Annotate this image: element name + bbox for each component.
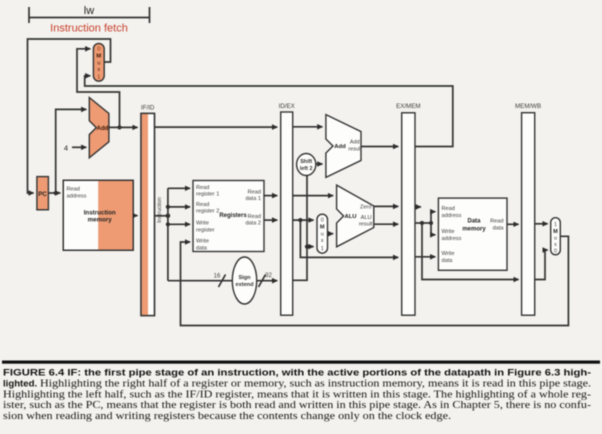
oval Sign extend [232, 257, 256, 304]
svg-text:address: address [442, 236, 462, 242]
junction instruction [166, 214, 171, 219]
svg-text:lighted.: lighted. [3, 378, 37, 389]
wire read data 2 down to EX/MEM (write data) [300, 220, 398, 257]
svg-text:Read: Read [196, 202, 209, 208]
lw bracket [29, 7, 150, 23]
junction ALU result bypass [420, 221, 424, 225]
svg-text:u: u [321, 231, 324, 237]
pipeline register ID/EX [279, 103, 295, 315]
svg-text:M: M [96, 54, 101, 60]
svg-text:Write: Write [196, 221, 209, 227]
registers Registers [193, 181, 264, 252]
svg-text:MEM/WB: MEM/WB [515, 103, 541, 110]
svg-text:Zero: Zero [360, 205, 372, 211]
wire ALU result after EX/MEM [415, 222, 431, 224]
svg-text:M: M [320, 225, 325, 231]
svg-text:Shift: Shift [300, 159, 312, 165]
wire to Write register [168, 223, 190, 225]
wire PC up to Add [56, 109, 87, 193]
junction read data 2 [298, 218, 302, 222]
svg-text:0: 0 [321, 218, 324, 224]
svg-text:ID/EX: ID/EX [279, 103, 295, 110]
wire branch Add result to EX/MEM [361, 146, 398, 148]
svg-text:result: result [359, 221, 373, 227]
memory Data memory [438, 198, 507, 270]
svg-text:Write: Write [196, 239, 209, 245]
wire Zero to EX/MEM [374, 205, 398, 207]
svg-text:u: u [97, 60, 100, 66]
svg-text:address: address [442, 213, 462, 219]
svg-text:ALU: ALU [361, 215, 372, 221]
slash 16 [219, 275, 226, 288]
svg-text:Read: Read [442, 206, 455, 212]
wire bypass to WB mux input 0 [535, 250, 548, 280]
mux M3 (WB mux) [551, 218, 561, 255]
svg-text:Instruction fetch: Instruction fetch [50, 23, 128, 35]
svg-text:register 2: register 2 [196, 209, 219, 215]
wire Zero stub [415, 206, 421, 208]
wire sign ext after ID/EX up to shift left 2 [293, 176, 307, 281]
wire Add out to IF/ID [109, 126, 138, 128]
wire PC+4 feedback to mux input 0 [77, 49, 120, 128]
caption rule [2, 361, 600, 364]
svg-text:left 2: left 2 [300, 166, 313, 172]
svg-text:Add: Add [350, 140, 360, 146]
mux M2 (ALUSrc) [317, 214, 328, 253]
svg-text:Data: Data [467, 219, 481, 225]
wire sign extend to ID/EX [257, 280, 278, 282]
wire read data 1 to ID/EX [264, 195, 277, 197]
svg-text:Registers: Registers [219, 213, 247, 219]
wire read data 2 ID/EX to mux [293, 219, 314, 221]
wire instruction from IF/ID [155, 215, 168, 217]
wire branch target long line to mux input 1 [85, 76, 453, 147]
svg-text:address: address [67, 194, 87, 200]
svg-text:ALU: ALU [344, 214, 356, 220]
svg-text:Add: Add [334, 144, 346, 150]
wire write data loop from WB [181, 236, 569, 325]
wire instruction vertical [167, 188, 169, 280]
wire read data 1 ID/EX to ALU [293, 195, 333, 197]
memory Instruction memory [63, 180, 133, 250]
wire to Read address [431, 212, 435, 223]
wire write data into memory [415, 256, 435, 258]
svg-text:extend: extend [235, 282, 254, 288]
svg-text:data: data [493, 225, 505, 231]
register PC [37, 177, 49, 210]
wire to Read register 2 [168, 206, 190, 208]
junction write register tap [166, 222, 170, 226]
slash 32 [259, 275, 266, 288]
svg-text:Sign: Sign [238, 275, 251, 281]
svg-text:M: M [553, 229, 558, 235]
junction PC out [54, 191, 58, 195]
pipeline register IF/ID [141, 105, 155, 316]
svg-text:data 2: data 2 [245, 221, 261, 227]
svg-text:FIGURE 6.4 IF: the first pipe: FIGURE 6.4 IF: the first pipe stage of a… [3, 368, 591, 379]
svg-text:Read: Read [248, 214, 261, 220]
pipeline register MEM/WB [515, 103, 541, 315]
svg-text:memory: memory [462, 227, 486, 233]
oval Shift left 2 [297, 154, 316, 176]
svg-text:register 1: register 1 [196, 192, 219, 198]
junction memory address bracket [429, 221, 433, 225]
adder Add (PC+4) [89, 98, 109, 158]
wire PC+4 ID/EX to branch Add [293, 126, 323, 128]
pipeline register EX/MEM [396, 103, 420, 315]
svg-text:lw: lw [84, 5, 94, 17]
svg-text:Read: Read [67, 187, 80, 193]
svg-text:16: 16 [214, 274, 221, 280]
svg-text:PC: PC [38, 191, 47, 198]
wire ALU result to EX/MEM [374, 223, 398, 225]
svg-text:x: x [554, 242, 557, 248]
wire read data to WB mux input 1 [535, 223, 548, 225]
svg-text:32: 32 [265, 273, 272, 279]
svg-text:Add: Add [97, 126, 109, 132]
svg-text:memory: memory [88, 217, 113, 224]
svg-text:Write: Write [442, 251, 455, 257]
svg-text:Read: Read [248, 189, 261, 195]
svg-text:x: x [97, 67, 100, 73]
junction sign-extend tap [305, 245, 309, 249]
svg-text:data: data [196, 245, 208, 251]
wire to sign extend [168, 280, 233, 282]
svg-text:data 1: data 1 [245, 196, 261, 202]
svg-text:4: 4 [64, 143, 68, 152]
wire to Read register 1 [168, 187, 190, 189]
junction read register 2 tap [166, 205, 170, 209]
svg-text:Highlighting the right half of: Highlighting the right half of a registe… [40, 378, 591, 389]
svg-text:0: 0 [554, 249, 557, 255]
wire read data 2 to ID/EX [264, 219, 277, 221]
alu ALU [337, 185, 374, 247]
svg-text:IF/ID: IF/ID [141, 105, 155, 112]
svg-text:result: result [348, 146, 362, 152]
wire PC to read address [48, 192, 60, 194]
wire 4 to Add [72, 146, 86, 148]
svg-text:Read: Read [196, 185, 209, 191]
svg-text:EX/MEM: EX/MEM [396, 103, 420, 110]
svg-text:x: x [321, 238, 324, 244]
svg-text:Highlighting the left half, su: Highlighting the left half, such as the … [3, 389, 592, 400]
svg-text:1: 1 [554, 222, 557, 228]
svg-text:Instruction: Instruction [157, 197, 163, 223]
svg-text:0: 0 [97, 47, 100, 53]
adder Add (branch) [326, 115, 362, 178]
wire read data to MEM/WB [507, 223, 519, 225]
svg-text:1: 1 [97, 75, 100, 81]
svg-text:data: data [442, 258, 454, 264]
svg-text:register: register [196, 227, 215, 233]
svg-text:ister, such as the PC, means t: ister, such as the PC, means that the re… [3, 400, 592, 411]
svg-text:sion when reading and writing: sion when reading and writing registers … [3, 411, 451, 422]
wire ALU result bypass to MEM/WB [422, 223, 519, 280]
mux M1 (PC source mux) [93, 43, 104, 81]
svg-text:u: u [554, 235, 557, 241]
wire tap to mux input 1 [307, 246, 314, 248]
svg-text:Read: Read [490, 219, 503, 225]
wire mux output to PC [28, 39, 111, 193]
wire inst memory out [133, 215, 137, 217]
wire to Write address [431, 223, 435, 235]
wire PC+4 IF/ID to ID/EX [155, 126, 278, 128]
junction add-out [117, 125, 121, 129]
wire shift left 2 to branch Add [316, 163, 323, 165]
svg-text:Instruction: Instruction [84, 210, 116, 217]
svg-text:1: 1 [321, 246, 324, 252]
svg-text:Write: Write [442, 229, 455, 235]
wire mux to ALU [328, 233, 334, 235]
